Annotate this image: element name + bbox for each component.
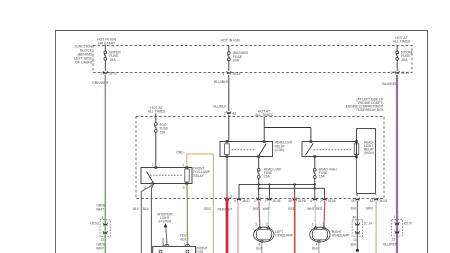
svg-text:ALL TIMES: ALL TIMES xyxy=(148,109,166,113)
wire to room fuse xyxy=(396,45,398,51)
svg-text:6: 6 xyxy=(234,199,236,203)
connector IJC03 on green wire xyxy=(90,216,110,242)
svg-text:BLU/BLK: BLU/BLK xyxy=(213,104,227,108)
svg-text:J8-15: J8-15 xyxy=(233,72,241,76)
relay HEADLIGHT RELAY (HIGH) coil box xyxy=(354,129,375,194)
svg-text:2: 2 xyxy=(224,111,226,115)
svg-text:20A: 20A xyxy=(233,59,240,63)
wire BLU/BLK (middle vertical) xyxy=(228,75,230,111)
svg-text:RELAY: RELAY xyxy=(193,174,204,178)
bus high beam (lower) xyxy=(259,178,325,198)
svg-text:ORG: ORG xyxy=(204,207,212,211)
svg-text:1: 1 xyxy=(100,72,102,76)
svg-text:4: 4 xyxy=(223,72,225,76)
connector E2-A8 inline xyxy=(224,111,236,115)
svg-text:WHT: WHT xyxy=(96,207,105,211)
wire GRN/WHT mid label xyxy=(96,204,105,212)
svg-text:RED: RED xyxy=(288,207,295,211)
svg-text:15A: 15A xyxy=(264,174,271,178)
svg-text:BLK: BLK xyxy=(351,243,358,247)
wire hot feed branch to both relays xyxy=(264,117,311,141)
wire GRN/WHT lower label xyxy=(96,242,105,250)
wire BLK from fog relay pin 4 xyxy=(133,185,153,253)
svg-text:RED/WHT: RED/WHT xyxy=(218,207,233,211)
fuse FOG 15A xyxy=(154,123,168,135)
wire RED/WHT thick red (left) xyxy=(218,197,233,253)
fuse HEAD HIGH 15A xyxy=(313,158,337,178)
relay FRONT FOG LAMP RELAY xyxy=(141,163,210,190)
svg-text:3: 3 xyxy=(183,186,185,190)
svg-text:J8-06: J8-06 xyxy=(328,199,336,203)
wire BLU/RED (maroon vertical) xyxy=(396,75,398,253)
svg-text:(LOW): (LOW) xyxy=(275,148,284,152)
svg-text:BLU/RED: BLU/RED xyxy=(383,243,398,247)
svg-text:WHT: WHT xyxy=(96,246,105,250)
fuse WASHER 20A xyxy=(227,51,248,62)
wire fuse to connector J8-14 xyxy=(396,60,398,71)
wire coil to connector (relay low coil bottom) xyxy=(226,158,228,197)
connector J8-15 pin 4 xyxy=(223,71,241,76)
svg-text:17: 17 xyxy=(390,71,394,75)
wire to washer fuse xyxy=(228,45,230,52)
wire RED thick (middle) xyxy=(288,197,295,253)
svg-text:GRN: GRN xyxy=(366,206,374,210)
relay HEADLIGHT RELAY (LOW) xyxy=(220,140,293,157)
wire fuse to connector J8-15 xyxy=(228,61,230,71)
fuse ROOM 15A xyxy=(396,51,412,62)
svg-text:12: 12 xyxy=(392,237,396,241)
svg-text:J8-02: J8-02 xyxy=(242,199,250,203)
svg-text:BLK: BLK xyxy=(351,206,358,210)
lamp LEFT HEADLAMP xyxy=(254,222,293,246)
node HOT AT ALL TIMES (headlight feed) xyxy=(255,109,273,117)
svg-text:HOT IN IGN: HOT IN IGN xyxy=(221,39,240,43)
svg-text:BLU/BLK: BLU/BLK xyxy=(214,80,229,84)
svg-text:J8-06: J8-06 xyxy=(272,199,280,203)
wire BLK from high relay (left leg) xyxy=(351,158,358,250)
svg-text:1: 1 xyxy=(182,163,184,167)
switch FOG LIGHT SW (bottom, cut off) xyxy=(153,242,208,253)
svg-text:J8-08: J8-08 xyxy=(298,199,306,203)
svg-text:1: 1 xyxy=(254,199,256,203)
wire ORG from fog relay pin 1 xyxy=(176,150,213,253)
svg-text:JC 14: JC 14 xyxy=(364,222,373,226)
svg-text:ALL TIMES: ALL TIMES xyxy=(255,113,273,117)
svg-text:1: 1 xyxy=(266,222,268,226)
svg-text:ALL TIMES: ALL TIMES xyxy=(393,40,411,44)
svg-text:13: 13 xyxy=(100,238,104,242)
svg-text:FUSE/RELAY BOX: FUSE/RELAY BOX xyxy=(356,108,384,112)
svg-text:15A: 15A xyxy=(319,174,326,178)
svg-text:I02 07: I02 07 xyxy=(404,221,413,225)
svg-text:WHT: WHT xyxy=(263,207,270,211)
connector row on box bottom xyxy=(225,195,387,203)
wire WHT to right headlamp xyxy=(307,201,315,226)
svg-text:4: 4 xyxy=(310,199,312,203)
lamp RIGHT HEADLAMP xyxy=(310,222,350,246)
svg-text:RED: RED xyxy=(253,207,260,211)
wire WHT to left headlamp xyxy=(263,201,270,226)
wire GRN/WHT (left green vertical) xyxy=(104,75,106,253)
wire GRN from high relay (right leg) xyxy=(366,194,377,253)
connector J8-12 pin 1 xyxy=(100,71,117,76)
svg-text:3: 3 xyxy=(255,222,257,226)
wire BLK lower label and end dot xyxy=(351,243,359,252)
svg-text:J8-12: J8-12 xyxy=(109,72,117,76)
page frame right border xyxy=(427,31,429,253)
wire BLK right headlamp ground xyxy=(312,243,319,253)
junction block J/B (dashed box) xyxy=(74,45,412,73)
svg-text:2: 2 xyxy=(152,163,154,167)
svg-text:BLU: BLU xyxy=(143,207,150,211)
svg-text:OR START: OR START xyxy=(98,41,116,45)
junction dots xyxy=(258,183,316,189)
svg-text:1: 1 xyxy=(312,222,314,226)
svg-text:40: 40 xyxy=(352,216,356,220)
bus low beam (upper) xyxy=(239,178,315,198)
connector J8-14 pin 17 xyxy=(390,71,409,75)
fuse WIPER 15A xyxy=(104,51,121,62)
svg-text:15A: 15A xyxy=(401,58,408,62)
svg-text:45: 45 xyxy=(351,199,355,203)
svg-text:3: 3 xyxy=(102,216,104,220)
wire hot feed into box xyxy=(155,113,157,122)
svg-text:J8-14: J8-14 xyxy=(401,71,409,75)
svg-text:J8-05: J8-05 xyxy=(379,199,387,203)
wire RED to right headlamp xyxy=(316,201,325,226)
svg-text:ORG: ORG xyxy=(176,150,184,154)
svg-text:(HIGH): (HIGH) xyxy=(364,151,374,155)
wire RED to left headlamp xyxy=(253,201,260,226)
svg-text:OF DASH): OF DASH) xyxy=(75,61,92,65)
svg-text:43: 43 xyxy=(370,199,374,203)
relay HEADLIGHT RELAY (HIGH side) xyxy=(302,140,357,157)
svg-text:SYSTEM: SYSTEM xyxy=(158,219,171,223)
svg-text:HEADLAMP: HEADLAMP xyxy=(332,234,350,238)
wire BLU/BLK to headlight relay coil xyxy=(227,114,229,141)
svg-text:IJC03: IJC03 xyxy=(90,222,99,226)
svg-text:BLU/RED: BLU/RED xyxy=(382,82,398,86)
connector JC 14 on black wire xyxy=(352,216,372,242)
svg-text:GRN/WHT: GRN/WHT xyxy=(92,81,110,85)
svg-text:HEADLAMP: HEADLAMP xyxy=(275,234,293,238)
engine compartment fuse/relay box (dashed box) xyxy=(136,98,384,199)
page frame top border xyxy=(55,30,428,32)
svg-text:A8: A8 xyxy=(232,111,236,115)
svg-text:1: 1 xyxy=(393,215,395,219)
svg-text:15A: 15A xyxy=(160,130,167,134)
svg-text:RED: RED xyxy=(316,207,323,211)
wire from hot feed to wiper fuse xyxy=(104,45,106,51)
wire YEL/BLK from fog relay pin 3 xyxy=(180,185,188,247)
svg-text:45: 45 xyxy=(288,199,292,203)
wire BLK left headlamp ground xyxy=(256,243,263,253)
svg-text:2: 2 xyxy=(320,199,322,203)
svg-text:BLK: BLK xyxy=(256,247,263,251)
svg-text:14: 14 xyxy=(353,238,357,242)
wire BLU from fog relay pin 4 xyxy=(143,185,153,253)
node HOT AT ALL TIMES (right) xyxy=(393,36,411,44)
svg-text:1: 1 xyxy=(183,242,185,246)
svg-text:BLK: BLK xyxy=(133,207,140,211)
node HOT AT ALL TIMES (fog feed) xyxy=(148,106,166,114)
fuse HEAD LOW 15A xyxy=(257,158,281,178)
svg-text:2: 2 xyxy=(230,195,232,199)
wire fuse to fog relay pin 2 xyxy=(155,132,157,166)
page frame left border xyxy=(55,31,57,253)
node HOT IN IGN OR START xyxy=(97,38,116,46)
svg-text:7: 7 xyxy=(265,199,267,203)
connector I02-07 on maroon wire xyxy=(392,215,413,241)
reference arrow to INTERIOR LIGHT SYSTEM xyxy=(157,212,173,246)
svg-text:3: 3 xyxy=(163,242,165,246)
svg-text:BLK: BLK xyxy=(312,247,319,251)
svg-text:15A: 15A xyxy=(109,58,116,62)
wire RED thin (J8-02) xyxy=(237,201,239,253)
svg-text:WHT: WHT xyxy=(307,207,314,211)
wire fuse to connector J8-12 xyxy=(104,60,106,71)
svg-text:BLK: BLK xyxy=(180,237,187,241)
